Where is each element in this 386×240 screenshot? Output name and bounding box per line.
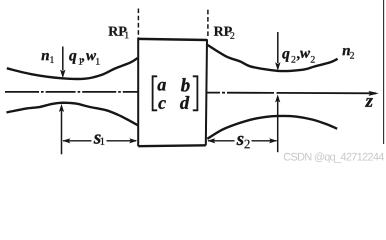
beam envelope upper-left	[7, 58, 138, 79]
left waist marker with up arrow	[61, 109, 63, 154]
label n1	[42, 53, 49, 60]
label s2	[237, 136, 244, 145]
matrix element d	[180, 96, 189, 109]
matrix element c	[158, 100, 165, 109]
optical axis left (chain line)	[5, 91, 138, 93]
beam envelope lower-left	[7, 103, 138, 126]
dashed line RP1	[137, 9, 139, 39]
matrix element b	[181, 78, 190, 91]
dashed line RP2	[207, 10, 209, 39]
s2 dimension line with arrows	[208, 140, 235, 142]
matrix element a	[158, 82, 166, 91]
optical axis right (z axis line)	[207, 92, 376, 95]
label RP1	[108, 27, 126, 36]
arrow down to q2 waist	[277, 32, 279, 63]
arrow down to q1 waist	[62, 47, 64, 71]
watermark	[284, 153, 384, 163]
ABCD box	[138, 38, 207, 146]
scan edge line right	[383, 0, 385, 144]
beam envelope lower-right	[207, 116, 337, 139]
label s1	[94, 135, 101, 144]
label z	[365, 98, 373, 107]
beam envelope upper-right	[207, 45, 338, 72]
matrix left bracket	[153, 76, 158, 110]
s1 dimension line with arrows	[63, 140, 92, 142]
label n2	[343, 48, 350, 55]
label q2,w2	[282, 51, 289, 62]
right waist marker with up arrow	[277, 100, 279, 152]
label q1,w1	[69, 53, 76, 64]
z axis arrowhead	[369, 91, 379, 96]
matrix right bracket	[193, 76, 198, 110]
label RP2	[214, 27, 232, 36]
